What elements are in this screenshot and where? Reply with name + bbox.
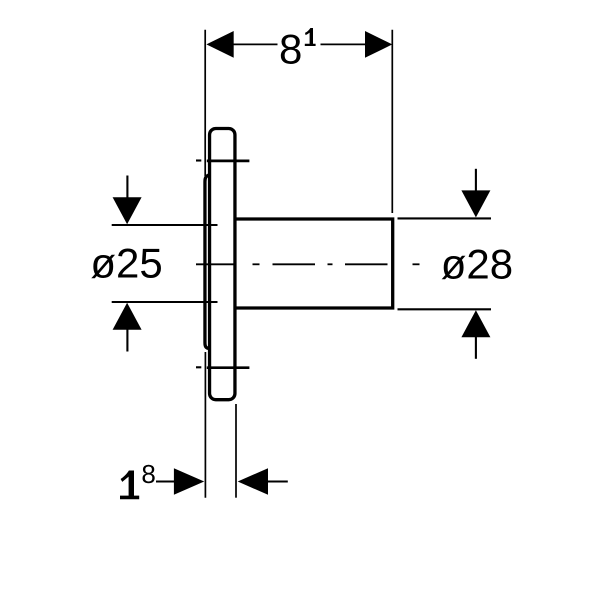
arrowhead right of dim 8^1 (365, 31, 392, 58)
arrowhead left of dim 8^1 (206, 31, 233, 58)
break tick lower (across plate) (196, 366, 201, 368)
extension line right (top dim 8^1) (391, 30, 393, 213)
svg-text:8: 8 (279, 25, 302, 72)
dia25 lower line (112, 301, 218, 303)
dia28 down arrow stem (475, 169, 477, 192)
dia28 lower line (398, 308, 492, 310)
break tick upper (across plate) (196, 159, 201, 161)
dimension line 8^1 left shaft (232, 43, 278, 45)
dia25 down arrow stem (126, 176, 128, 199)
dia25 up arrow stem (126, 329, 128, 352)
dim 1^8 right arrowhead (points left) (238, 468, 268, 495)
label 1 (dim 1^8) (120, 471, 139, 500)
gasket collar line (left of plate, hooked ends) (205, 175, 210, 349)
cover plate outline (rounded rectangle, side view) (210, 129, 235, 400)
extension line left (bottom dim 1^8, below collar) (204, 352, 206, 498)
extension line right (bottom dim 1^8) (235, 404, 237, 498)
pipe spigot outline (top, right end, bottom) (236, 219, 393, 308)
centerline (dash-dot) (196, 263, 420, 265)
dimension line 8^1 right shaft (321, 43, 368, 45)
label superscript 1 (dim 8^1) (305, 28, 316, 46)
svg-text:ø28: ø28 (441, 240, 513, 287)
dia25 up arrowhead (113, 303, 142, 330)
dia28 up arrow stem (475, 337, 477, 359)
dia28 upper line (398, 217, 492, 219)
dim 1^8 right tail (268, 480, 288, 482)
svg-text:ø25: ø25 (90, 239, 162, 286)
dia25 upper line (112, 224, 218, 226)
dia25 down arrowhead (113, 197, 142, 224)
dia28 down arrowhead (461, 190, 490, 217)
svg-text:8: 8 (141, 459, 155, 489)
dim 1^8 left tail (156, 480, 175, 482)
extension line left (top dim 8^1, down to collar) (204, 30, 206, 176)
dim 1^8 left arrowhead (points right) (174, 468, 204, 495)
dia28 up arrowhead (461, 310, 490, 337)
